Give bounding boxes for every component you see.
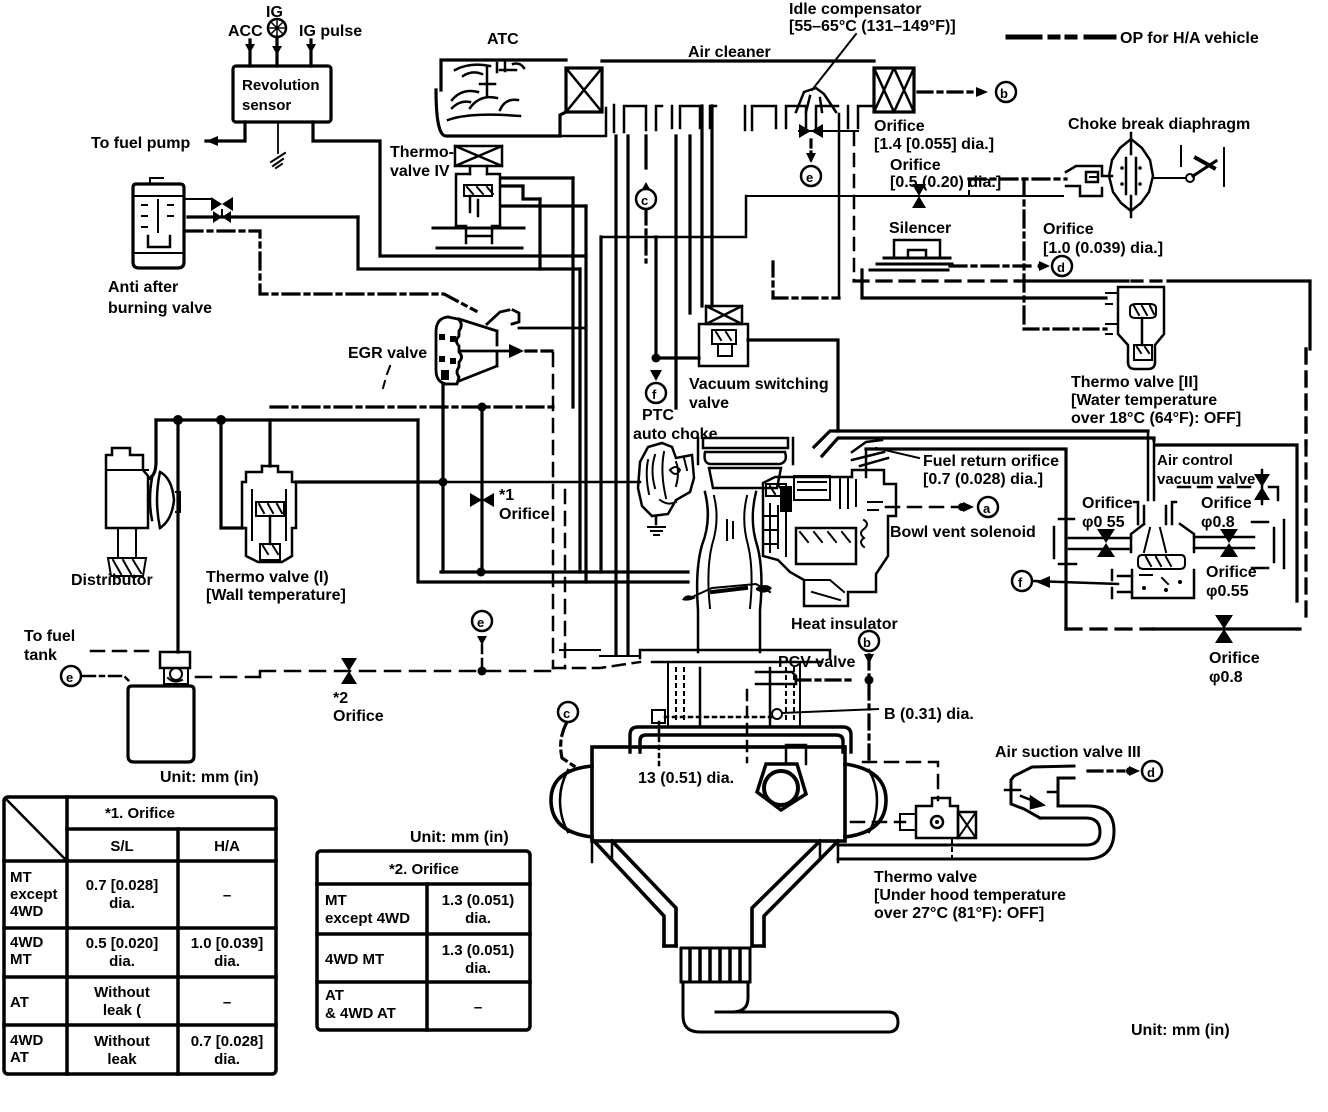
dash-dot wire y407 bbox=[271, 405, 553, 408]
svg-text:MT: MT bbox=[10, 869, 32, 886]
svg-text:PTC: PTC bbox=[642, 407, 674, 424]
svg-text:1.0 [0.039]: 1.0 [0.039] bbox=[191, 935, 264, 952]
svg-text:sensor: sensor bbox=[242, 97, 291, 114]
svg-text:[0.5 (0.20) dia.]: [0.5 (0.20) dia.] bbox=[890, 174, 1001, 191]
svg-text:*2: *2 bbox=[333, 690, 348, 707]
dashed vertical right frame bbox=[1304, 349, 1307, 445]
label Thermo-valve IV bbox=[390, 144, 454, 180]
node c (manifold) with arrow bbox=[558, 702, 578, 722]
carb base flange bbox=[560, 650, 830, 662]
svg-text:Without: Without bbox=[94, 1033, 150, 1050]
thermo valve III body bbox=[1106, 287, 1164, 369]
dash-dot y329 to thermo valve III bbox=[1024, 327, 1106, 330]
wire to canister x178 bbox=[176, 420, 179, 652]
svg-text:AT: AT bbox=[10, 1049, 29, 1066]
svg-text:13 (0.51) dia.: 13 (0.51) dia. bbox=[638, 770, 734, 787]
thermo valve IV right port wires bbox=[502, 178, 586, 206]
svg-text:[55–65°C (131–149°F)]: [55–65°C (131–149°F)] bbox=[789, 18, 956, 35]
EGR label pointer dashes bbox=[383, 366, 390, 388]
wire anti-after valve to right (solid) bbox=[188, 211, 358, 223]
bundle vertical wires right group bbox=[676, 106, 712, 408]
svg-text:Distributor: Distributor bbox=[71, 572, 153, 589]
OP legend line bbox=[1008, 35, 1114, 40]
engine mount nubs bbox=[592, 841, 838, 862]
svg-text:[Wall temperature]: [Wall temperature] bbox=[206, 587, 346, 604]
dash-dot feed to choke diaphragm bbox=[969, 177, 1066, 180]
svg-text:Air suction valve III: Air suction valve III bbox=[995, 744, 1141, 761]
svg-text:[Under hood temperature: [Under hood temperature bbox=[874, 887, 1066, 904]
label Thermo valve under hood bbox=[874, 869, 1066, 922]
dash-dot wire to node b bbox=[918, 87, 988, 97]
svg-text:Thermo valve: Thermo valve bbox=[874, 869, 977, 886]
svg-text:valve IV: valve IV bbox=[390, 163, 450, 180]
svg-text:Orifice: Orifice bbox=[333, 708, 384, 725]
hatched restrictor box 1 in air cleaner bbox=[566, 68, 602, 112]
air suction valve III body bbox=[1005, 766, 1074, 818]
orifice 0.8 right channel and bowtie bbox=[1194, 529, 1254, 557]
dashed vertical x553 bbox=[552, 353, 555, 668]
orifice valve (bowtie) near anti-after valve bbox=[184, 197, 233, 217]
node a bbox=[978, 497, 998, 517]
dash-dot wire PCV to node b line bbox=[796, 676, 874, 685]
distributor body bbox=[106, 448, 180, 576]
node e (fuel tank) bbox=[61, 666, 81, 686]
canister body bbox=[128, 686, 194, 762]
svg-text:Orifice: Orifice bbox=[874, 118, 925, 135]
svg-text:IG pulse: IG pulse bbox=[299, 23, 362, 40]
label Air control vacuum valve bbox=[1157, 452, 1255, 488]
junction dot y572 bbox=[477, 568, 486, 577]
svg-text:dia.: dia. bbox=[465, 910, 491, 927]
wire vertical from carb inlet to y196 bbox=[601, 196, 746, 237]
*2 orifice bowtie bbox=[341, 658, 357, 684]
svg-text:Unit: mm (in): Unit: mm (in) bbox=[160, 769, 259, 786]
wire x482 vertical with *1 orifice bbox=[470, 407, 494, 572]
ACV inner device bbox=[1131, 502, 1194, 598]
svg-text:a: a bbox=[983, 501, 991, 516]
svg-text:leak: leak bbox=[107, 1051, 137, 1068]
idle compensator device bbox=[796, 88, 836, 112]
svg-text:To fuel pump: To fuel pump bbox=[91, 135, 190, 152]
svg-text:Choke break diaphragm: Choke break diaphragm bbox=[1068, 116, 1250, 133]
junction dot x178 bbox=[173, 415, 183, 425]
svg-text:Revolution: Revolution bbox=[242, 77, 320, 94]
svg-text:Idle compensator: Idle compensator bbox=[789, 1, 921, 18]
dashed vertical x565 bbox=[564, 490, 567, 668]
svg-text:e: e bbox=[66, 670, 73, 685]
svg-text:4WD MT: 4WD MT bbox=[325, 951, 384, 968]
svg-text:MT: MT bbox=[10, 951, 32, 968]
dash-dot vertical node b to engine bbox=[867, 655, 870, 762]
wire IG to sensor bbox=[272, 37, 282, 66]
svg-text:c: c bbox=[641, 193, 648, 208]
dash-dot below node c bbox=[561, 724, 574, 766]
distributor drive pentagon bbox=[757, 745, 806, 810]
wire to thermo valve I left x221 bbox=[221, 420, 242, 528]
svg-text:4WD: 4WD bbox=[10, 934, 44, 951]
svg-text:Unit: mm (in): Unit: mm (in) bbox=[1131, 1022, 1230, 1039]
engine funnel bbox=[594, 841, 838, 946]
PTC auto choke body bbox=[638, 443, 694, 535]
svg-text:0.7 [0.028]: 0.7 [0.028] bbox=[191, 1033, 264, 1050]
main dashed purge wire bbox=[196, 671, 553, 677]
svg-text:except 4WD: except 4WD bbox=[325, 910, 410, 927]
wire y572 bbox=[441, 570, 688, 573]
node d (air suction) bbox=[1142, 761, 1162, 781]
svg-text:Orifice: Orifice bbox=[1201, 495, 1252, 512]
junction dot VSV bbox=[652, 354, 661, 363]
wire x573 down bbox=[571, 178, 574, 407]
junction dot x221 bbox=[216, 415, 226, 425]
wire x656 from y269 bbox=[654, 237, 657, 358]
double wire to air control vacuum valve bbox=[814, 431, 1154, 456]
choke break solenoid body bbox=[1066, 166, 1112, 196]
svg-text:Air cleaner: Air cleaner bbox=[688, 44, 771, 61]
ATC device squiggles bbox=[448, 62, 524, 120]
wire thermo valve I output to x443 bbox=[296, 480, 443, 483]
exhaust pipe J bbox=[683, 982, 898, 1032]
main wire y420 bbox=[156, 418, 418, 421]
svg-text:b: b bbox=[863, 635, 871, 650]
anti after burning valve body bbox=[133, 178, 184, 268]
float bowl body bbox=[763, 470, 896, 606]
dashed wire lower to thermo valve bbox=[851, 821, 905, 824]
carburetor inlet crenellation left bbox=[560, 105, 716, 136]
ground stub from sensor bbox=[277, 122, 279, 153]
svg-text:Air control: Air control bbox=[1157, 452, 1233, 469]
svg-text:auto choke: auto choke bbox=[633, 426, 718, 443]
svg-text:–: – bbox=[223, 887, 231, 904]
node b (top) bbox=[996, 82, 1016, 102]
carburetor venturi tube bbox=[697, 492, 761, 652]
wire ACC to sensor bbox=[245, 40, 255, 66]
arrow to node f bbox=[650, 370, 662, 381]
wire to fuel pump with arrow bbox=[206, 122, 245, 146]
dash-dot wire anti-after valve to EGR bbox=[186, 231, 476, 311]
air suction pipe from engine bbox=[838, 806, 1114, 859]
label Thermo valve III bbox=[1071, 374, 1241, 427]
label *1 Orifice bbox=[499, 487, 550, 523]
label Orifice 1.0 bbox=[1043, 221, 1163, 257]
table 2 bbox=[317, 851, 530, 1030]
EGR valve body bbox=[436, 310, 586, 384]
svg-text:Vacuum switching: Vacuum switching bbox=[689, 376, 829, 393]
vacuum switching valve body bbox=[699, 306, 748, 366]
revolution sensor box bbox=[233, 66, 331, 122]
svg-text:φ0.8: φ0.8 bbox=[1209, 669, 1243, 686]
svg-text:OP for H/A vehicle: OP for H/A vehicle bbox=[1120, 30, 1259, 47]
wire to distributor bbox=[150, 420, 156, 478]
node e (mid) with arrow bbox=[472, 611, 492, 672]
table 1 text bbox=[10, 805, 263, 1068]
label Thermo valve (I) bbox=[206, 569, 346, 604]
svg-text:φ0.8: φ0.8 bbox=[1201, 514, 1235, 531]
top right branch with bowtie bbox=[1178, 470, 1278, 504]
svg-text:Orifice: Orifice bbox=[1209, 650, 1260, 667]
long wire y281 to right frame bbox=[854, 281, 1310, 349]
orifice 1.4 valve (bowtie) bbox=[799, 124, 858, 138]
svg-text:0.5 [0.020]: 0.5 [0.020] bbox=[86, 935, 159, 952]
svg-text:To fuel: To fuel bbox=[24, 628, 75, 645]
svg-text:Without: Without bbox=[94, 984, 150, 1001]
carburetor inlet crenellation right bbox=[745, 68, 874, 130]
svg-text:Unit: mm (in): Unit: mm (in) bbox=[410, 829, 509, 846]
solenoid enclosure wire bbox=[866, 449, 1066, 629]
svg-text:S/L: S/L bbox=[110, 838, 133, 855]
svg-text:vacuum valve: vacuum valve bbox=[1157, 471, 1255, 488]
svg-text:tank: tank bbox=[24, 647, 57, 664]
dashed outer frame right bbox=[1304, 349, 1307, 624]
svg-text:ACC: ACC bbox=[228, 23, 263, 40]
ground symbol bbox=[271, 153, 285, 168]
svg-text:[0.7 (0.028) dia.]: [0.7 (0.028) dia.] bbox=[923, 471, 1043, 488]
svg-text:Bowl vent solenoid: Bowl vent solenoid bbox=[890, 524, 1036, 541]
wire x418 down to y582 bbox=[418, 420, 688, 582]
thermo valve (under hood) body bbox=[900, 798, 976, 838]
label Orifice 0.55 lower bbox=[1206, 564, 1257, 600]
svg-text:dia.: dia. bbox=[109, 895, 135, 912]
svg-text:valve: valve bbox=[689, 395, 729, 412]
svg-text:AT: AT bbox=[10, 994, 29, 1011]
svg-text:[Water temperature: [Water temperature bbox=[1071, 392, 1217, 409]
label To fuel tank bbox=[24, 628, 75, 664]
svg-text:f: f bbox=[652, 387, 657, 402]
svg-text:dia.: dia. bbox=[214, 953, 240, 970]
throttle plate and shaft bbox=[682, 584, 772, 601]
wire y298 silencer to thermo valve III bbox=[862, 270, 1106, 298]
label Fuel return orifice bbox=[923, 453, 1059, 488]
node e (under orifice) bbox=[801, 166, 821, 186]
orifice 0.55 left channel and bowtie bbox=[1069, 529, 1131, 557]
svg-text:burning valve: burning valve bbox=[108, 300, 212, 317]
svg-text:1.3 (0.051): 1.3 (0.051) bbox=[442, 942, 515, 959]
svg-text:dia.: dia. bbox=[109, 953, 135, 970]
dash-dot wire to node d bbox=[1088, 766, 1140, 776]
svg-text:d: d bbox=[1057, 260, 1065, 275]
svg-text:Orifice: Orifice bbox=[1082, 495, 1133, 512]
svg-text:over 18°C (64°F): OFF]: over 18°C (64°F): OFF] bbox=[1071, 410, 1241, 427]
dashed jog wire y672 to carb base bbox=[553, 662, 640, 668]
dashed wire engine to thermo valve hood bbox=[863, 762, 938, 800]
junction dot EGR/thermo wire bbox=[439, 478, 448, 487]
hatched restrictor box 2 (idle compensator outlet) bbox=[874, 68, 914, 112]
label Orifice 0.8 bbox=[1201, 495, 1252, 531]
dotted vertical 13dia callout bbox=[658, 722, 661, 768]
node c (air cleaner) with arrow bbox=[636, 182, 656, 209]
PCV valve port bbox=[756, 672, 796, 684]
svg-text:leak (: leak ( bbox=[103, 1002, 141, 1019]
svg-text:dia.: dia. bbox=[214, 1051, 240, 1068]
dashed vertical into manifold bbox=[746, 690, 749, 762]
svg-text:*1: *1 bbox=[499, 487, 514, 504]
dashed vertical wire x854 bbox=[853, 133, 856, 281]
svg-text:B (0.31) dia.: B (0.31) dia. bbox=[884, 706, 974, 723]
bottom orifice 0.8 bowtie bbox=[1215, 615, 1233, 643]
svg-text:EGR valve: EGR valve bbox=[348, 345, 427, 362]
fuel return nozzle bbox=[852, 440, 888, 466]
dash-dot stub with arrow to node e bbox=[806, 140, 816, 163]
svg-text:except: except bbox=[10, 886, 58, 903]
thermo valve IV body bbox=[433, 146, 524, 248]
label PTC auto choke bbox=[633, 407, 718, 443]
svg-text:over 27°C (81°F): OFF]: over 27°C (81°F): OFF] bbox=[874, 905, 1044, 922]
svg-text:d: d bbox=[1147, 765, 1155, 780]
svg-text:*1. Orifice: *1. Orifice bbox=[105, 805, 175, 822]
svg-text:AT: AT bbox=[325, 987, 344, 1004]
thermo valve callout dotted bbox=[951, 840, 953, 864]
svg-text:Orifice: Orifice bbox=[1206, 564, 1257, 581]
choke break diaphragm body bbox=[1109, 133, 1153, 217]
dash-dot vertical x1024 bbox=[1022, 179, 1025, 329]
node b (heat insulator) with arrow bbox=[859, 631, 879, 664]
right outlet bracket bbox=[1252, 520, 1284, 568]
wire VSV left port bbox=[656, 356, 699, 359]
canister top valve bbox=[160, 652, 190, 684]
table 2 text bbox=[325, 861, 514, 1022]
svg-text:1.3 (0.051): 1.3 (0.051) bbox=[442, 892, 515, 909]
svg-text:e: e bbox=[806, 170, 813, 185]
wire y482 into carb bbox=[443, 481, 640, 484]
label Orifice 1.4 bbox=[874, 118, 994, 153]
svg-text:c: c bbox=[563, 706, 570, 721]
svg-text:Thermo valve (I): Thermo valve (I) bbox=[206, 569, 329, 586]
svg-text:φ0 55: φ0 55 bbox=[1082, 514, 1125, 531]
svg-text:–: – bbox=[474, 999, 482, 1016]
svg-text:e: e bbox=[477, 615, 484, 630]
svg-text:PCV valve: PCV valve bbox=[778, 654, 855, 671]
label Idle compensator bbox=[789, 1, 956, 35]
long vertical wire x839 bbox=[838, 114, 841, 298]
dash-dot from node e bbox=[83, 676, 130, 682]
svg-text:f: f bbox=[1018, 575, 1023, 590]
EGR bottom wire down to thermo valve I output bbox=[441, 384, 444, 482]
dashed stub down to y196 bbox=[968, 179, 970, 196]
svg-text:4WD: 4WD bbox=[10, 903, 44, 920]
svg-text:–: – bbox=[223, 994, 231, 1011]
air cleaner housing outline bbox=[436, 60, 874, 136]
junction dot purge wire bbox=[478, 667, 487, 676]
svg-text:[1.0 (0.039) dia.]: [1.0 (0.039) dia.] bbox=[1043, 240, 1163, 257]
svg-text:Thermo valve [II]: Thermo valve [II] bbox=[1071, 374, 1198, 391]
wire thermo valve I top bbox=[268, 420, 271, 466]
svg-text:*2. Orifice: *2. Orifice bbox=[389, 861, 459, 878]
air control vacuum valve enclosure bbox=[1066, 445, 1300, 629]
dash-dot wire silencer to node d bbox=[950, 261, 1050, 271]
svg-text:MT: MT bbox=[325, 892, 347, 909]
svg-text:dia.: dia. bbox=[465, 960, 491, 977]
node f bbox=[646, 383, 666, 403]
svg-text:ATC: ATC bbox=[487, 31, 519, 48]
B orifice callout bbox=[652, 709, 878, 723]
thermo valve I body bbox=[242, 466, 296, 562]
left inlet bracket bbox=[1054, 519, 1076, 564]
wire x443 down to y572 bbox=[441, 482, 444, 572]
svg-text:Anti after: Anti after bbox=[108, 279, 178, 296]
wire down and right at y269 bbox=[358, 217, 580, 269]
fuel return callout line bbox=[876, 448, 919, 458]
label Orifice 0.55 bbox=[1082, 495, 1133, 531]
silencer device bbox=[870, 240, 952, 270]
wire VSV right port bbox=[748, 340, 838, 431]
svg-text:4WD: 4WD bbox=[10, 1032, 44, 1049]
junction dot y407 bbox=[478, 403, 487, 412]
svg-text:& 4WD AT: & 4WD AT bbox=[325, 1005, 396, 1022]
wire drop inside ACV box bbox=[1148, 431, 1154, 500]
wire y196 with orifice 0.5 bowtie bbox=[746, 184, 1063, 208]
label Orifice 0.5 bbox=[890, 157, 1001, 191]
idle compensator callout line bbox=[812, 34, 856, 90]
svg-text:b: b bbox=[1000, 86, 1008, 101]
dashed wire fuel tank bbox=[91, 650, 156, 653]
wire IG pulse to sensor bbox=[306, 40, 316, 66]
svg-text:Orifice: Orifice bbox=[890, 157, 941, 174]
svg-text:Orifice: Orifice bbox=[499, 506, 550, 523]
insulator block dotted bbox=[668, 664, 800, 726]
dash-dot y298 left segment bbox=[773, 262, 839, 298]
wire x586 down bbox=[584, 206, 587, 582]
label Vacuum switching valve bbox=[689, 376, 829, 412]
svg-text:0.7 [0.028]: 0.7 [0.028] bbox=[86, 877, 159, 894]
node d (silencer) bbox=[1052, 256, 1072, 276]
svg-text:Orifice: Orifice bbox=[1043, 221, 1094, 238]
dash-dot wire EGR arrow to x553 bbox=[526, 349, 553, 352]
engine top band bbox=[630, 727, 851, 752]
svg-text:Silencer: Silencer bbox=[889, 220, 951, 237]
svg-text:H/A: H/A bbox=[214, 838, 240, 855]
choke lever linkage bbox=[1153, 146, 1224, 186]
table 1 bbox=[4, 797, 276, 1074]
wire sensor right output down to thermo valve IV bbox=[313, 122, 586, 256]
svg-text:Fuel return orifice: Fuel return orifice bbox=[923, 453, 1059, 470]
label Revolution sensor bbox=[242, 77, 320, 114]
wire x540 down bbox=[538, 199, 541, 269]
svg-text:Heat insulator: Heat insulator bbox=[791, 616, 898, 633]
bundle vertical wires mid group bbox=[580, 136, 646, 655]
IG terminal circle bbox=[268, 19, 286, 37]
label *2 Orifice bbox=[333, 690, 384, 725]
carburetor air horn bbox=[698, 438, 793, 488]
svg-text:φ0.55: φ0.55 bbox=[1206, 583, 1249, 600]
dash-dot below node c bbox=[644, 210, 647, 262]
engine main body bbox=[551, 747, 886, 841]
svg-text:Thermo-: Thermo- bbox=[390, 144, 454, 161]
node f (ACV) with arrow bbox=[1012, 570, 1132, 598]
ribbed collar bbox=[681, 948, 750, 982]
label Anti after burning valve bbox=[108, 279, 212, 317]
dashed wire to node a bbox=[886, 502, 974, 512]
label Orifice 0.8 bottom bbox=[1209, 650, 1260, 686]
svg-text:[1.4 [0.055] dia.]: [1.4 [0.055] dia.] bbox=[874, 136, 994, 153]
